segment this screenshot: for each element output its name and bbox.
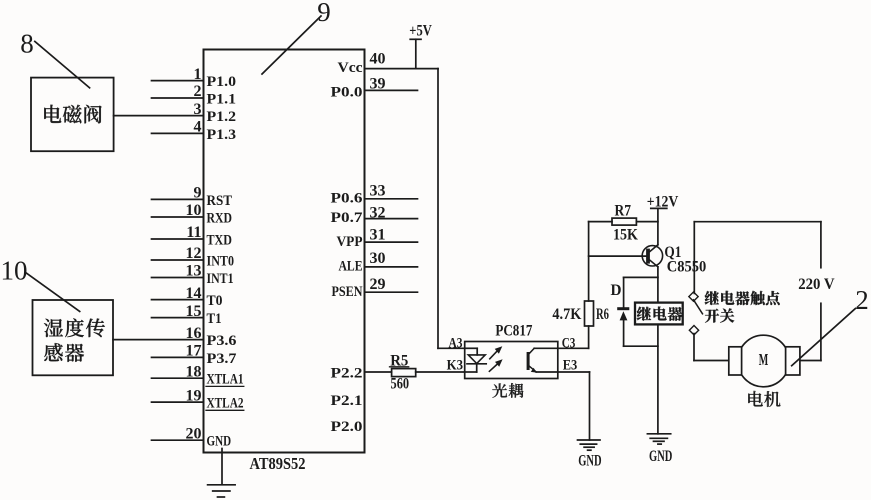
svg-text:30: 30	[370, 250, 386, 267]
svg-text:P1.0: P1.0	[207, 74, 237, 90]
ground symbol GND (relay)	[647, 434, 670, 444]
svg-text:P3.7: P3.7	[207, 351, 238, 367]
svg-text:P0.7: P0.7	[331, 210, 364, 226]
pin 12 INT0	[152, 245, 235, 269]
svg-text:T1: T1	[207, 311, 222, 327]
svg-text:P2.1: P2.1	[331, 393, 363, 409]
pin 14 T0	[152, 285, 223, 309]
svg-text:13: 13	[186, 263, 202, 280]
svg-text:P0.6: P0.6	[331, 190, 364, 206]
pin 1 P1.0	[152, 66, 237, 90]
motor M	[729, 335, 800, 387]
svg-text:INT1: INT1	[207, 271, 234, 287]
svg-text:40: 40	[370, 51, 386, 68]
svg-text:15K: 15K	[613, 226, 638, 243]
wire 220V loop top	[694, 221, 821, 223]
resistor R5	[392, 369, 416, 377]
svg-text:GND: GND	[207, 434, 232, 450]
svg-text:19: 19	[186, 387, 202, 404]
diode D	[617, 277, 629, 346]
wire relay to ground	[657, 324, 659, 433]
wire node to R7	[589, 221, 612, 223]
svg-text:2: 2	[855, 285, 869, 315]
svg-text:32: 32	[370, 205, 386, 222]
svg-text:XTLA1: XTLA1	[207, 372, 244, 388]
svg-text:Vcc: Vcc	[338, 60, 363, 76]
pin 31 VPP	[337, 227, 418, 250]
svg-text:1: 1	[194, 66, 202, 83]
pin 33 P0.6	[331, 183, 418, 207]
svg-text:220 V: 220 V	[798, 276, 835, 293]
svg-text:+5V: +5V	[409, 23, 432, 40]
+5V power symbol	[409, 23, 432, 69]
svg-text:C8550: C8550	[667, 258, 707, 275]
IC U1 AT89S52 body	[204, 50, 365, 453]
svg-text:9: 9	[317, 0, 331, 27]
svg-text:INT0: INT0	[207, 254, 235, 270]
pin 9 RST	[152, 185, 233, 209]
svg-text:AT89S52: AT89S52	[250, 454, 306, 473]
wire P2.2 to R5	[365, 371, 392, 373]
svg-text:20: 20	[186, 425, 202, 442]
svg-text:2: 2	[194, 83, 202, 100]
svg-text:P1.1: P1.1	[207, 92, 237, 108]
svg-text:TXD: TXD	[207, 233, 233, 249]
label 9 callout	[262, 0, 331, 74]
电磁阀 text	[44, 105, 101, 124]
svg-text:18: 18	[186, 363, 202, 380]
pin 30 ALE	[339, 250, 418, 274]
pin 17 P3.7	[152, 343, 238, 367]
label 10 callout	[1, 256, 80, 312]
pin 16 P3.6	[113, 325, 237, 349]
svg-text:31: 31	[370, 227, 386, 244]
wire R5 to optocoupler K3	[416, 371, 465, 373]
transistor Q1 C8550	[642, 245, 662, 267]
pin 13 INT1	[152, 263, 234, 287]
phototransistor inside optocoupler	[527, 348, 537, 372]
wire E3 emitter out	[536, 371, 589, 373]
relay contact switch	[689, 292, 703, 335]
svg-text:P0.0: P0.0	[331, 84, 363, 100]
label 2 callout	[792, 285, 869, 366]
wire C3 collector out	[534, 347, 588, 349]
svg-text:16: 16	[186, 325, 202, 342]
svg-text:8: 8	[20, 29, 34, 59]
pin 19 XTLA2	[152, 387, 244, 411]
svg-text:P2.0: P2.0	[331, 419, 363, 435]
+12V power symbol	[647, 193, 679, 245]
pin 3 P1.2	[114, 101, 236, 125]
svg-text:17: 17	[186, 343, 202, 360]
svg-text:M: M	[759, 350, 769, 369]
svg-text:P2.2: P2.2	[331, 366, 363, 382]
pin 2 P1.1	[152, 83, 237, 107]
wire E3 down to ground	[589, 372, 591, 440]
wire Vcc node down to optocoupler A3	[437, 69, 439, 349]
svg-text:4.7K: 4.7K	[552, 306, 581, 323]
svg-text:15: 15	[186, 303, 202, 320]
继电器 text	[637, 307, 682, 321]
继电器触点 text	[705, 291, 780, 305]
optocoupler U3 PC817 box	[465, 342, 558, 379]
svg-text:3: 3	[194, 101, 202, 118]
svg-text:XTLA2: XTLA2	[207, 396, 244, 412]
svg-text:GND: GND	[578, 452, 601, 469]
wire left down to contact	[693, 222, 695, 294]
svg-text:33: 33	[370, 183, 386, 200]
wire base to node	[589, 255, 647, 257]
LED light arrows	[489, 346, 502, 371]
box 湿度传感器 (humidity sensor)	[33, 300, 114, 375]
svg-text:10: 10	[186, 202, 202, 219]
svg-text:ALE: ALE	[339, 259, 363, 275]
relay coil box 继电器	[635, 303, 683, 325]
pin 4 P1.3	[152, 119, 237, 143]
pin 15 T1	[152, 303, 222, 327]
svg-text:RST: RST	[207, 193, 233, 209]
svg-text:PC817: PC817	[495, 323, 532, 340]
pin 40 Vcc	[338, 51, 439, 76]
光耦 text	[492, 383, 523, 397]
wire 220V right side lower	[820, 303, 822, 360]
电机 text	[748, 391, 780, 407]
svg-text:VPP: VPP	[337, 234, 363, 250]
svg-text:A3: A3	[449, 336, 463, 352]
R5 label	[390, 352, 409, 369]
svg-text:RXD: RXD	[207, 211, 233, 227]
pin 11 TXD	[152, 224, 233, 248]
wire 220V right side upper	[820, 222, 822, 268]
svg-text:D: D	[611, 282, 622, 299]
svg-text:14: 14	[186, 285, 202, 302]
label 8 callout	[20, 29, 89, 88]
wire diode bottom to relay line	[624, 345, 658, 347]
svg-text:P3.6: P3.6	[207, 333, 238, 349]
pin 20 GND	[152, 425, 232, 449]
ground symbol under IC	[208, 485, 236, 497]
湿度传感器 text	[44, 319, 105, 362]
svg-text:P1.3: P1.3	[207, 127, 237, 143]
wire to A3	[438, 347, 465, 349]
svg-text:R7: R7	[615, 203, 632, 220]
svg-text:29: 29	[370, 276, 386, 293]
svg-text:K3: K3	[447, 358, 463, 374]
wire collector down	[657, 267, 659, 303]
pin 18 XTLA1	[152, 363, 244, 387]
svg-text:GND: GND	[649, 448, 672, 465]
svg-text:PSEN: PSEN	[332, 284, 363, 300]
svg-text:P1.2: P1.2	[207, 109, 237, 125]
wire contact to motor	[693, 334, 695, 361]
wire to diode branch top	[624, 276, 658, 278]
开关 text	[705, 309, 734, 323]
ground symbol GND (E3)	[578, 440, 601, 450]
svg-text:39: 39	[370, 76, 386, 93]
svg-text:R6: R6	[596, 306, 609, 323]
wire R6 up to base node	[588, 222, 590, 301]
svg-text:10: 10	[1, 256, 28, 286]
resistor R7	[612, 218, 636, 225]
pin 32 P0.7	[331, 205, 418, 227]
pin 10 RXD	[152, 202, 233, 226]
IC GND wire	[221, 449, 223, 485]
pin 29 PSEN	[332, 276, 418, 300]
wire C3 up to R6	[588, 326, 590, 348]
svg-text:T0: T0	[207, 293, 223, 309]
box 电磁阀 (solenoid valve)	[31, 78, 114, 152]
svg-text:12: 12	[186, 245, 202, 262]
svg-text:11: 11	[186, 224, 201, 241]
wire R7 to +12V line	[636, 221, 658, 223]
LED inside optocoupler	[465, 348, 487, 372]
svg-text:4: 4	[194, 119, 202, 136]
resistor R6 4.7K	[585, 301, 594, 326]
svg-text:560: 560	[391, 376, 410, 393]
svg-text:9: 9	[194, 185, 202, 202]
pin 39 P0.0	[331, 76, 418, 101]
